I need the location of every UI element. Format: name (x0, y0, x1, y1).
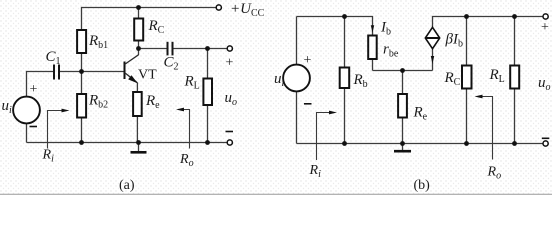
wire: (a) Rb1 bottom to base node (81, 53, 83, 72)
ground (b) (394, 150, 411, 153)
resistor Re (b) (398, 94, 407, 118)
resistor rbe (b) (368, 36, 377, 60)
wire: (a) source bottom to ground rail (26, 123, 28, 142)
wire: (a) Re bottom to ground rail (136, 116, 138, 143)
junction: (b) RC top node (464, 14, 469, 19)
wire: (b) diamond top to rail (433, 17, 544, 28)
wire: (b) emitter horizontal (373, 70, 433, 72)
label - of source (a) (30, 126, 38, 128)
wire: (a) bottom ground rail (27, 142, 228, 144)
wire: (a) output node to + terminal (208, 48, 228, 50)
source ui (a) (13, 97, 40, 124)
wire: (b) RC top (466, 17, 468, 66)
svg-text:+: + (541, 20, 549, 35)
wire: (b) source top (296, 17, 298, 65)
wire: (b) Re bottom (402, 118, 404, 144)
arrow: Ib current on rbe branch (371, 25, 374, 32)
wire: (a) output node down to RL (207, 49, 209, 79)
source ui (b) (283, 65, 310, 92)
wire: (a) collector vertical of VT (138, 49, 140, 56)
junction: (a) collector node (136, 46, 141, 51)
wire: (b) Re top (402, 71, 404, 95)
wire: (a) top supply rail (82, 7, 217, 9)
terminal: +UCC supply (216, 5, 221, 10)
wire: (a) ground stub below rail (138, 143, 140, 152)
wire: (a) RC top (138, 8, 140, 19)
controlled source beta*Ib diamond (425, 27, 439, 48)
wire: (b) diamond bottom to emitter node (432, 49, 434, 71)
junction: (a) base node (79, 69, 84, 74)
terminal: (b) output + (543, 14, 548, 19)
junction: (a) Rb2 / ground rail (79, 140, 84, 145)
wire: (b) Rb top (344, 17, 346, 68)
junction: (b) emitter node (400, 68, 405, 73)
junction: (b) Rb bottom (342, 141, 347, 146)
wire: (b) top left rail (297, 17, 373, 36)
resistor Rb1 (77, 30, 86, 53)
wire: (b) RC bottom (466, 89, 468, 144)
wire: (a) collector node to C2 (139, 48, 167, 50)
svg-text:+: + (30, 82, 38, 97)
arrow: input resistance Ri (b) (317, 111, 338, 160)
ground (a) (131, 151, 147, 154)
wire: (b) source bottom (296, 91, 298, 143)
wire: (b) RL bottom (514, 89, 516, 144)
svg-text:VT: VT (138, 68, 157, 83)
junction: (b) Re bottom (400, 141, 405, 146)
junction: (a) top rail / RC (136, 5, 141, 10)
junction: (b) RL bottom (512, 141, 517, 146)
wire: (a) RC bottom to collector node (138, 41, 140, 49)
wire: (a) Rb2 bottom to ground rail (81, 118, 83, 143)
svg-text:(b): (b) (414, 178, 431, 193)
arrow: output resistance Ro (b) (475, 95, 493, 160)
wire: (b) Rb bottom (344, 88, 346, 144)
resistor RL (a) (203, 79, 212, 106)
arrow: input resistance Ri (a) (48, 109, 70, 149)
junction: (a) RL / ground rail (205, 140, 210, 145)
junction: (b) RL top node (512, 14, 517, 19)
wire: (a) Rb1 branch top (81, 7, 83, 30)
terminal: (a) output + (227, 46, 232, 51)
junction: (b) RC bottom (464, 141, 469, 146)
bottom edge shadow line (0, 193, 552, 195)
capacitor C1 (54, 65, 59, 80)
wire: (a) emitter vertical to Re (136, 83, 138, 93)
svg-text:+: + (226, 56, 234, 71)
label - of output (b) (542, 137, 550, 139)
wire: (b) rbe bottom to emitter node (372, 59, 374, 71)
junction: (b) Rb top node (342, 14, 347, 19)
resistor Rb (b) (340, 68, 350, 89)
wire: (a) base node to Rb2 (81, 72, 83, 95)
wire: (b) RL top (514, 17, 516, 66)
resistor RC (a) (134, 19, 143, 41)
resistor Rb2 (77, 94, 86, 118)
resistor Re (a) (133, 92, 142, 116)
label - of output (a) (226, 131, 234, 133)
resistor RC (b) (462, 66, 472, 89)
transistor VT (125, 55, 139, 84)
arrow: output resistance Ro (a) (176, 108, 190, 149)
terminal: (b) output - (543, 141, 548, 146)
terminal: (a) output - (227, 140, 232, 145)
arrow: current direction below diamond (431, 56, 434, 64)
wire: (a) C2 to output node (174, 48, 208, 50)
wire: (a) input corner to C1 (27, 72, 54, 97)
junction: (a) Re / ground rail (136, 140, 141, 145)
wire: (a) RL bottom to ground rail (207, 105, 209, 143)
junction: (a) output node (205, 46, 210, 51)
resistor RL (b) (510, 66, 519, 89)
svg-text:(a): (a) (119, 178, 135, 193)
label - of source (b) (304, 103, 312, 105)
wire: (b) ground stub (402, 144, 404, 151)
wire: (a) C1 to base of VT (60, 71, 124, 73)
wire: (b) bottom rail (297, 143, 544, 145)
svg-text:+: + (304, 53, 312, 68)
capacitor C2 (168, 42, 173, 56)
